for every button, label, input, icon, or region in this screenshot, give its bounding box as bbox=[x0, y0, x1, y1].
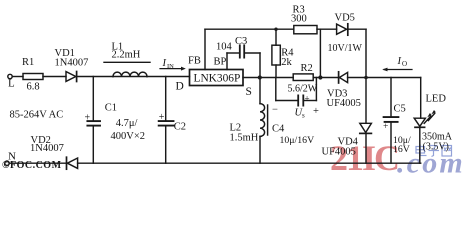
svg-text:4.7μ/: 4.7μ/ bbox=[116, 118, 138, 129]
svg-text:s: s bbox=[302, 112, 305, 120]
svg-text:+: + bbox=[305, 94, 310, 104]
svg-text:UF4005: UF4005 bbox=[322, 146, 356, 157]
svg-text:FB: FB bbox=[188, 56, 201, 67]
svg-text:I: I bbox=[397, 56, 402, 67]
svg-text:©FOC.COM: ©FOC.COM bbox=[2, 160, 62, 171]
svg-text:300: 300 bbox=[291, 13, 307, 24]
svg-text:85-264V AC: 85-264V AC bbox=[10, 110, 64, 121]
svg-text:+: + bbox=[313, 106, 319, 117]
svg-text:10V/1W: 10V/1W bbox=[328, 43, 363, 54]
svg-text:L: L bbox=[8, 78, 15, 90]
svg-text:1N4007: 1N4007 bbox=[55, 57, 89, 68]
svg-text:C1: C1 bbox=[105, 103, 117, 114]
svg-text:R1: R1 bbox=[22, 57, 34, 68]
svg-text:400V×2: 400V×2 bbox=[111, 131, 146, 142]
svg-text:S: S bbox=[246, 86, 252, 98]
svg-text:IN: IN bbox=[167, 63, 174, 70]
svg-text:O: O bbox=[402, 60, 407, 68]
svg-text:LED: LED bbox=[426, 94, 447, 105]
svg-text:5.6/2W: 5.6/2W bbox=[288, 83, 318, 94]
svg-text:+: + bbox=[159, 112, 165, 123]
svg-text:D: D bbox=[176, 81, 184, 93]
svg-text:C5: C5 bbox=[394, 104, 406, 115]
svg-text:C3: C3 bbox=[235, 36, 247, 47]
svg-text:2k: 2k bbox=[281, 57, 292, 68]
svg-text:−: − bbox=[272, 105, 278, 116]
svg-text:I: I bbox=[162, 58, 167, 69]
svg-text:1.5mH: 1.5mH bbox=[230, 132, 259, 143]
svg-text:104: 104 bbox=[216, 42, 233, 53]
svg-text:C2: C2 bbox=[174, 122, 186, 133]
svg-text:6.8: 6.8 bbox=[27, 82, 40, 93]
svg-text:+: + bbox=[85, 113, 91, 124]
svg-text:+: + bbox=[383, 122, 388, 132]
svg-text:UF4005: UF4005 bbox=[327, 98, 361, 109]
svg-text:C4: C4 bbox=[272, 124, 285, 135]
svg-text:R2: R2 bbox=[301, 63, 313, 74]
svg-text:VD5: VD5 bbox=[335, 13, 355, 24]
svg-text:LNK306P: LNK306P bbox=[194, 73, 241, 85]
svg-text:BP: BP bbox=[214, 57, 227, 68]
svg-text:2.2mH: 2.2mH bbox=[112, 50, 141, 61]
svg-text:10μ/16V: 10μ/16V bbox=[280, 135, 315, 146]
svg-text:16V: 16V bbox=[393, 144, 410, 155]
svg-text:1N4007: 1N4007 bbox=[30, 143, 64, 154]
svg-text:(3.5V): (3.5V) bbox=[423, 141, 449, 152]
